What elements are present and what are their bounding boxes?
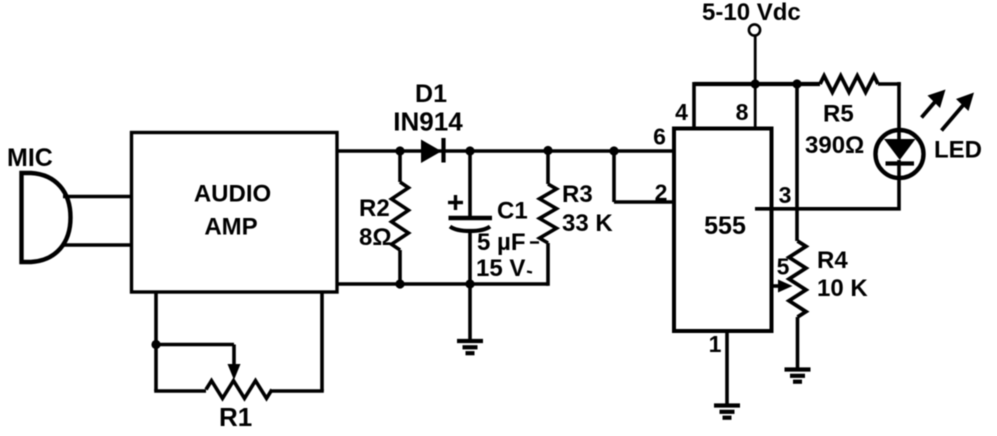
svg-text:555: 555 xyxy=(704,212,746,240)
svg-text:33 K: 33 K xyxy=(562,210,613,237)
svg-text:AMP: AMP xyxy=(204,214,257,241)
svg-text:R2: R2 xyxy=(359,195,390,222)
svg-text:5-10 Vdc: 5-10 Vdc xyxy=(702,0,801,26)
svg-text:10 K: 10 K xyxy=(817,275,868,302)
svg-text:R5: R5 xyxy=(823,101,854,128)
svg-text:R1: R1 xyxy=(219,402,252,432)
svg-text:1: 1 xyxy=(709,331,722,357)
svg-text:2: 2 xyxy=(655,180,668,206)
svg-text:R4: R4 xyxy=(817,247,848,274)
svg-text:AUDIO: AUDIO xyxy=(194,181,271,208)
svg-text:8Ω: 8Ω xyxy=(359,224,392,251)
svg-text:5 µF: 5 µF xyxy=(477,229,526,256)
svg-text:6: 6 xyxy=(653,124,666,150)
svg-text:15 V: 15 V xyxy=(476,255,525,282)
svg-text:MIC: MIC xyxy=(7,144,53,172)
svg-text:C1: C1 xyxy=(497,198,528,225)
svg-text:4: 4 xyxy=(675,99,688,125)
svg-text:R3: R3 xyxy=(562,181,593,208)
svg-text:LED: LED xyxy=(934,137,982,164)
svg-text:5: 5 xyxy=(777,254,790,280)
svg-text:D1: D1 xyxy=(415,80,447,108)
svg-text:390Ω: 390Ω xyxy=(805,132,864,159)
svg-text:IN914: IN914 xyxy=(393,107,463,137)
svg-text:8: 8 xyxy=(736,99,749,125)
svg-text:3: 3 xyxy=(779,182,792,208)
